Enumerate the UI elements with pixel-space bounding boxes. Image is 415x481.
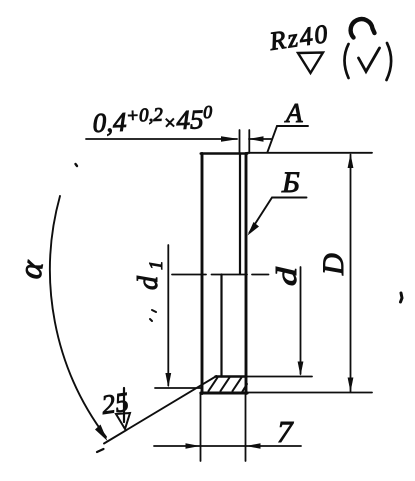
chamfer dimension line [86,138,237,140]
washer outline bottom edge [201,392,247,395]
thickness arrow right [246,443,261,449]
hatch line 2 [221,378,230,392]
d1 dimension line [167,245,169,386]
chamfer arrow left [221,136,239,142]
bottom edge extension line to D dimension [247,392,372,394]
hatch line 3 [233,378,242,392]
chamfer extension line right [248,130,250,153]
D arrow top [348,154,354,169]
thickness arrow left [186,443,201,449]
roughness triangle symbol [298,53,323,74]
washer outline top edge [201,152,247,155]
small open triangle under 25 [116,413,130,429]
rest-of-surfaces check mark [359,48,380,72]
rest-of-surfaces paren right [387,43,392,80]
svg-text:0,4+0,2×450: 0,4+0,2×450 [92,102,213,138]
D arrow bottom [348,378,354,393]
svg-text:Б: Б [281,166,300,199]
svg-text:7: 7 [277,414,294,449]
bore edge line in section (hatch top) [216,375,247,378]
D dimension line [350,155,352,392]
speck below alpha arrow [97,449,104,452]
leader for surface B [250,198,307,233]
washer outline left edge [201,154,204,394]
thickness dimension line 7 [154,445,301,447]
speck above alpha arc [76,164,78,166]
countersink chamfer diagonal extended as angle side [104,376,217,444]
chamfer edge line (surface A side) [239,154,241,274]
d arrow [298,362,304,377]
washer outline right edge [245,154,248,394]
crescent mark [351,19,375,37]
specks under d1 label [150,310,156,321]
alpha angle arc [50,196,106,437]
inner countersink edge line [220,275,222,377]
d dimension line [300,267,302,374]
rest-of-surfaces paren left [345,44,349,78]
bore extension line to d dimension [247,376,313,378]
svg-text:d: d [272,267,303,286]
horizontal centerline axis [172,274,269,276]
speck right margin [401,293,403,302]
hatch line 1 [209,378,218,392]
hatch line 4 [242,384,248,393]
top edge extension line to D dimension [247,152,372,154]
stroke after 25 [123,388,125,422]
svg-text:α: α [12,257,51,281]
svg-text:Rz40: Rz40 [267,19,331,56]
chamfer extension line left [239,130,241,153]
thickness extension line right [245,394,247,461]
d1 extension line [155,387,201,389]
svg-text:d1: d1 [133,261,167,291]
thickness extension line left [200,394,202,461]
alpha arc arrowhead [95,425,108,442]
d1 arrow [165,373,171,388]
leader B arrowhead [248,222,260,236]
svg-text:D: D [317,253,350,276]
leader for surface A [268,126,309,152]
svg-text:A: A [284,98,303,128]
svg-text:25: 25 [100,386,131,419]
chamfer arrow right [248,136,263,141]
chamfer dim right tail [249,138,271,140]
